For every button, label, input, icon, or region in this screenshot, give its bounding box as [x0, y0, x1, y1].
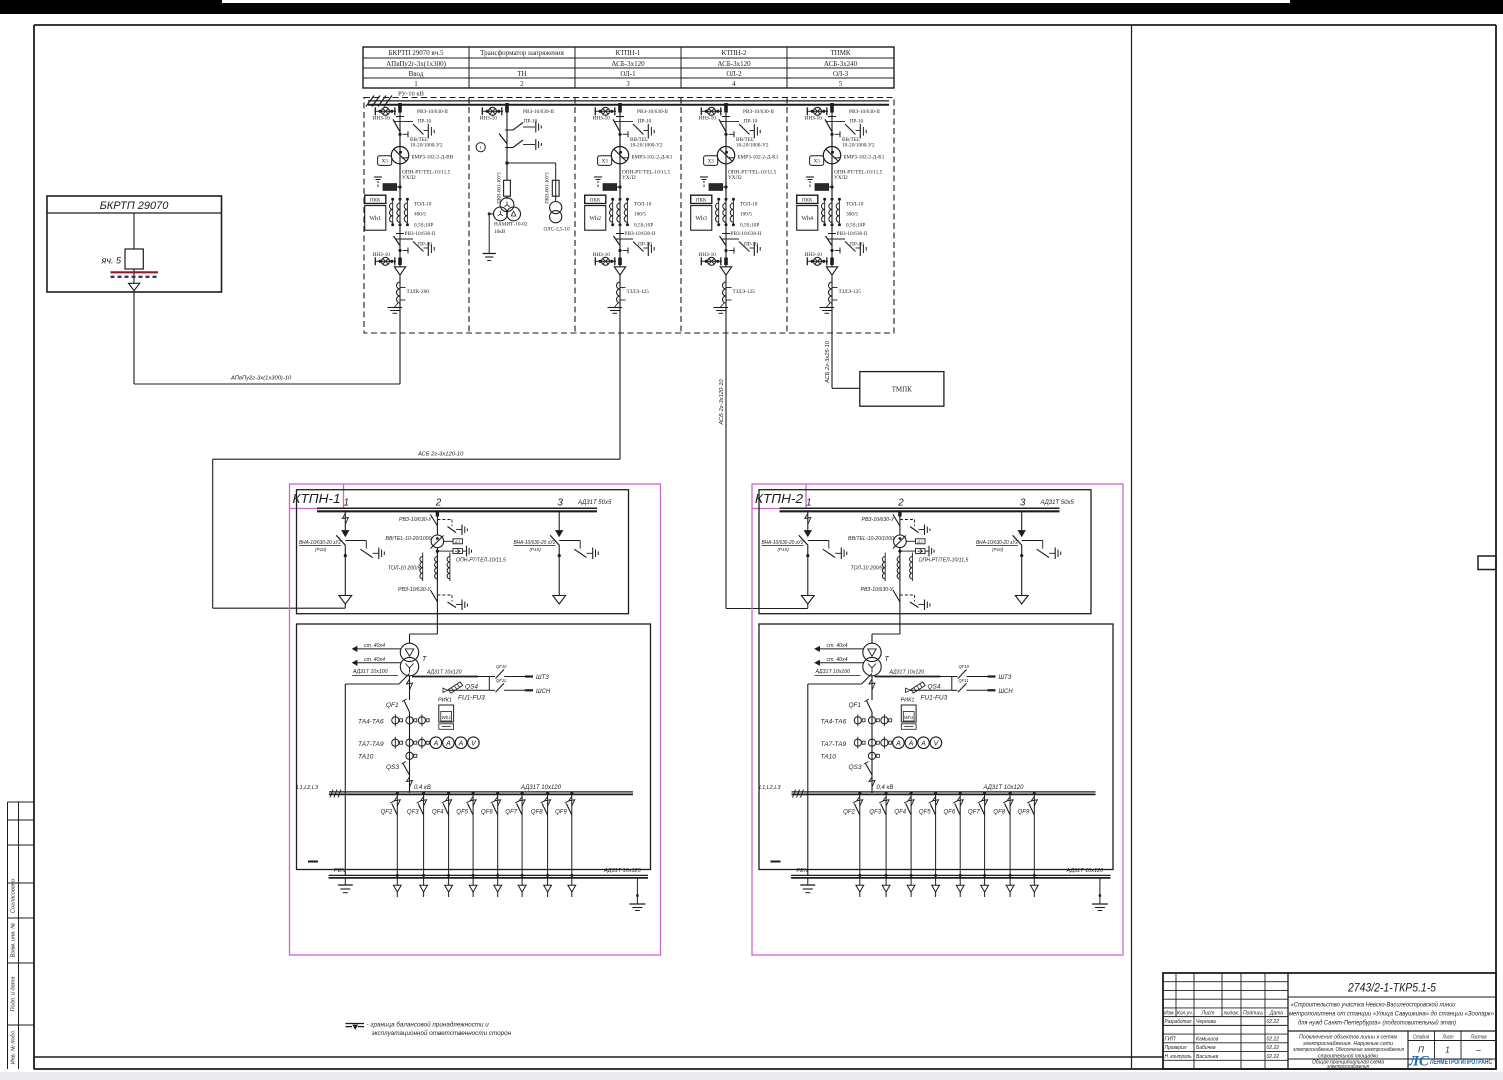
- svg-text:3: 3: [1020, 498, 1026, 509]
- svg-text:QF10: QF10: [496, 664, 507, 669]
- svg-text:ПР-10: ПР-10: [418, 119, 432, 125]
- svg-text:QS3: QS3: [849, 764, 862, 771]
- svg-text:Бабичев: Бабичев: [1196, 1045, 1216, 1051]
- svg-text:ГИП: ГИП: [1165, 1037, 1176, 1043]
- svg-text:ПР-10: ПР-10: [638, 119, 652, 125]
- svg-text:ТЗЛК-200: ТЗЛК-200: [407, 289, 430, 295]
- svg-text:Лист: Лист: [1200, 1010, 1214, 1016]
- svg-text:QF7: QF7: [968, 809, 980, 815]
- svg-text:Листов: Листов: [1470, 1034, 1487, 1040]
- svg-text:БКРТП 29070 яч.5: БКРТП 29070 яч.5: [389, 49, 444, 57]
- svg-text:Х3: Х3: [602, 160, 609, 165]
- svg-text:V: V: [934, 740, 940, 747]
- svg-text:КТПН-1: КТПН-1: [293, 491, 341, 506]
- svg-text:АСБ-3х240: АСБ-3х240: [824, 60, 858, 68]
- svg-text:ОЛ-3: ОЛ-3: [833, 70, 849, 78]
- svg-text:ПКК: ПКК: [370, 198, 381, 203]
- svg-text:ИНЗ-10: ИНЗ-10: [373, 252, 391, 258]
- svg-text:ПР-10: ПР-10: [744, 119, 758, 125]
- svg-text:2: 2: [520, 80, 524, 88]
- svg-text:QF11: QF11: [959, 678, 969, 683]
- svg-text:АПвПу2г-3х(1х300)-10: АПвПу2г-3х(1х300)-10: [230, 376, 292, 382]
- svg-text:ВНА-10/630-20 зУ2: ВНА-10/630-20 зУ2: [762, 540, 804, 546]
- svg-text:РВЗ-10/630-II: РВЗ-10/630-II: [849, 109, 880, 115]
- svg-text:ПР-10: ПР-10: [744, 242, 758, 248]
- svg-text:А: А: [458, 740, 464, 747]
- svg-text:РВЗ-10/630-II: РВЗ-10/630-II: [405, 231, 436, 237]
- svg-text:Подп. и дата: Подп. и дата: [11, 976, 17, 1011]
- svg-text:ВНА-10/630-20 зУ2: ВНА-10/630-20 зУ2: [514, 540, 556, 546]
- svg-text:АСБ 2г-3х120-10: АСБ 2г-3х120-10: [719, 379, 725, 426]
- svg-text:Взам. инв. №: Взам. инв. №: [11, 923, 17, 958]
- svg-text:электроснабжения. Обеспечение: электроснабжения. Обеспечение электросна…: [1293, 1047, 1404, 1053]
- svg-text:10кВ: 10кВ: [494, 229, 506, 235]
- svg-text:FU1-FU3: FU1-FU3: [458, 695, 485, 702]
- svg-text:ВНА-10/630-20 зУ2: ВНА-10/630-20 зУ2: [299, 540, 341, 546]
- svg-text:V: V: [471, 740, 477, 747]
- svg-text:QF8: QF8: [531, 809, 543, 815]
- svg-text:ТА7-ТА9: ТА7-ТА9: [358, 741, 384, 748]
- svg-text:УХЛ2: УХЛ2: [402, 175, 416, 181]
- svg-text:Wh4: Wh4: [801, 216, 813, 222]
- svg-text:QF8: QF8: [993, 809, 1005, 815]
- svg-text:АПвПу2г-3х(1х300): АПвПу2г-3х(1х300): [386, 60, 447, 68]
- svg-text:ТА4-ТА6: ТА4-ТА6: [821, 719, 847, 726]
- svg-text:1: 1: [414, 80, 418, 88]
- svg-text:ОПН-РТ/ТЕЛ-10/11,5: ОПН-РТ/ТЕЛ-10/11,5: [919, 558, 969, 564]
- svg-text:Инв. № подл.: Инв. № подл.: [11, 1030, 17, 1065]
- svg-text:АД31Т 10х120: АД31Т 10х120: [520, 785, 562, 791]
- svg-text:РИК1: РИК1: [901, 698, 915, 704]
- svg-text:ТОЛ-10 200/5: ТОЛ-10 200/5: [388, 566, 421, 572]
- svg-text:яч. 5: яч. 5: [101, 256, 122, 266]
- svg-text:ШТЗ: ШТЗ: [999, 675, 1012, 681]
- svg-text:QF2: QF2: [843, 809, 855, 815]
- svg-text:ст. 40х4: ст. 40х4: [364, 643, 385, 649]
- svg-text:ИНЗ-10: ИНЗ-10: [593, 116, 611, 122]
- svg-text:ПКК: ПКК: [590, 198, 601, 203]
- svg-text:ИНЗ-10: ИНЗ-10: [373, 116, 391, 122]
- svg-text:АД31Т 10х120: АД31Т 10х120: [426, 670, 462, 676]
- svg-text:ВВ/ТЕL-10-20/1000: ВВ/ТЕL-10-20/1000: [386, 536, 432, 542]
- svg-text:РВЗ-10/630-У: РВЗ-10/630-У: [398, 587, 431, 593]
- svg-text:ТМПК: ТМПК: [892, 386, 912, 394]
- svg-text:ОПН-РТ/ТЕЛ-10/11,5: ОПН-РТ/ТЕЛ-10/11,5: [456, 558, 506, 564]
- svg-text:5: 5: [839, 80, 843, 88]
- svg-text:АСБ 2г-3х120-10: АСБ 2г-3х120-10: [417, 452, 464, 458]
- svg-text:QF4: QF4: [894, 809, 906, 815]
- svg-text:ТОЛ-10 200/5: ТОЛ-10 200/5: [851, 566, 884, 572]
- svg-text:РИК1: РИК1: [438, 698, 452, 704]
- svg-text:ПКК: ПКК: [696, 198, 707, 203]
- svg-text:ИНЗ-10: ИНЗ-10: [480, 116, 498, 122]
- svg-text:для нужд Санкт-Петербурга» (по: для нужд Санкт-Петербурга» (подготовител…: [1298, 1019, 1456, 1027]
- svg-text:УХЛ2: УХЛ2: [622, 175, 636, 181]
- svg-text:электроснабжения. Наружные сет: электроснабжения. Наружные сети: [1303, 1041, 1393, 1047]
- svg-text:L1,L2,L3: L1,L2,L3: [759, 785, 781, 791]
- svg-text:РВЗ-10/630-II: РВЗ-10/630-II: [731, 231, 762, 237]
- svg-text:QF9: QF9: [1018, 809, 1030, 815]
- svg-text:Подпись: Подпись: [1243, 1010, 1263, 1016]
- svg-text:ИНЗ-10: ИНЗ-10: [593, 252, 611, 258]
- svg-text:QF1: QF1: [386, 702, 399, 709]
- svg-text:Wh2: Wh2: [589, 216, 601, 222]
- svg-text:РВЗ-10/630-II: РВЗ-10/630-II: [637, 109, 668, 115]
- svg-text:БМРЗ-102-2-Д-К1: БМРЗ-102-2-Д-К1: [844, 155, 885, 161]
- svg-text:УХЛ2: УХЛ2: [834, 175, 848, 181]
- svg-text:ЛС: ЛС: [1408, 1054, 1429, 1070]
- svg-text:АД31Т 10х120: АД31Т 10х120: [603, 868, 642, 874]
- svg-text:ПР-10: ПР-10: [418, 242, 432, 248]
- svg-text:А: А: [433, 740, 439, 747]
- svg-text:АД31Т 10х100: АД31Т 10х100: [815, 669, 851, 675]
- svg-text:ТЗЛЭ-125: ТЗЛЭ-125: [839, 289, 862, 295]
- svg-text:ТА4-ТА6: ТА4-ТА6: [358, 719, 384, 726]
- svg-text:НАМИТ-10-02: НАМИТ-10-02: [494, 222, 528, 228]
- svg-text:ПР-10: ПР-10: [638, 242, 652, 248]
- svg-text:ПКК: ПКК: [802, 198, 813, 203]
- svg-text:БКРТП 29070: БКРТП 29070: [100, 200, 170, 212]
- svg-text:ВВ/ТЕL-10-20/1000: ВВ/ТЕL-10-20/1000: [848, 536, 894, 542]
- svg-text:РВЗ-10/630-У: РВЗ-10/630-У: [862, 517, 895, 523]
- svg-text:Кол.уч.: Кол.уч.: [1177, 1010, 1193, 1016]
- svg-text:А: А: [445, 740, 451, 747]
- svg-text:РВЗ-10/630-II: РВЗ-10/630-II: [743, 109, 774, 115]
- svg-text:QF7: QF7: [505, 809, 517, 815]
- svg-text:ПР-10: ПР-10: [850, 242, 864, 248]
- svg-text:4: 4: [732, 80, 736, 88]
- svg-text:QF3: QF3: [869, 809, 881, 815]
- svg-text:L1,L2,L3: L1,L2,L3: [297, 785, 319, 791]
- svg-text:Т: Т: [885, 656, 890, 663]
- svg-text:QF3: QF3: [407, 809, 419, 815]
- svg-text:Д-1: Д-1: [916, 540, 923, 544]
- svg-text:10-20/1000-У2: 10-20/1000-У2: [842, 143, 875, 149]
- svg-text:QF10: QF10: [959, 664, 970, 669]
- svg-text:РУ-10 кВ: РУ-10 кВ: [398, 91, 425, 98]
- svg-text:УХЛ2: УХЛ2: [728, 175, 742, 181]
- svg-text:ШТЗ: ШТЗ: [536, 675, 549, 681]
- svg-text:Трансформатор напряжения: Трансформатор напряжения: [480, 49, 565, 57]
- svg-text:ТОЛ-10: ТОЛ-10: [634, 202, 652, 208]
- svg-text:PEN: PEN: [334, 868, 345, 874]
- svg-text:ИНЗ-10: ИНЗ-10: [699, 252, 717, 258]
- svg-text:ИНЗ-10: ИНЗ-10: [805, 116, 823, 122]
- svg-text:КТПН-2: КТПН-2: [755, 491, 804, 506]
- svg-text:400/5: 400/5: [414, 212, 426, 218]
- svg-text:(Р10): (Р10): [315, 547, 327, 552]
- svg-text:FU1-FU3: FU1-FU3: [921, 695, 948, 702]
- svg-text:2: 2: [897, 498, 904, 509]
- svg-text:Дата: Дата: [1269, 1010, 1283, 1016]
- svg-text:ИНЗ-10: ИНЗ-10: [805, 252, 823, 258]
- svg-text:РВЗ-10/630-II: РВЗ-10/630-II: [625, 231, 656, 237]
- svg-text:300/5: 300/5: [846, 212, 858, 218]
- svg-text:ТЗЛЭ-125: ТЗЛЭ-125: [627, 289, 650, 295]
- svg-text:ОЛ-2: ОЛ-2: [726, 70, 742, 78]
- svg-text:Wh3: Wh3: [695, 216, 707, 222]
- svg-text:- граница балансовой принадлеж: - граница балансовой принадлежности и: [367, 1021, 490, 1029]
- svg-text:0,4 кВ: 0,4 кВ: [414, 785, 431, 791]
- svg-text:АСБ-3х120: АСБ-3х120: [717, 60, 751, 68]
- svg-text:Стадия: Стадия: [1413, 1034, 1429, 1040]
- svg-text:Согласовано: Согласовано: [11, 879, 17, 913]
- svg-text:ТН: ТН: [517, 70, 526, 78]
- svg-text:БМРЗ-102-2-Д-К1: БМРЗ-102-2-Д-К1: [738, 155, 779, 161]
- svg-text:АД31Т 10х120: АД31Т 10х120: [889, 670, 925, 676]
- svg-text:РВЗ-10/630-II: РВЗ-10/630-II: [417, 109, 448, 115]
- svg-text:QF1: QF1: [849, 702, 862, 709]
- svg-text:ТОЛ-10: ТОЛ-10: [414, 202, 432, 208]
- svg-text:–: –: [1475, 1046, 1481, 1055]
- svg-text:Д-1: Д-1: [454, 540, 461, 544]
- svg-text:А: А: [895, 740, 901, 747]
- svg-text:0,4 кВ: 0,4 кВ: [877, 785, 894, 791]
- svg-text:АД31Т 50х5: АД31Т 50х5: [577, 500, 612, 506]
- svg-text:АСБ-3х120: АСБ-3х120: [611, 60, 645, 68]
- svg-text:ТА10: ТА10: [821, 754, 837, 761]
- svg-text:ИНЗ-10: ИНЗ-10: [699, 116, 717, 122]
- svg-text:10-20/1000-У2: 10-20/1000-У2: [410, 143, 443, 149]
- svg-text:ПР-10: ПР-10: [850, 119, 864, 125]
- svg-text:РВЗ-10/630-У: РВЗ-10/630-У: [861, 587, 894, 593]
- svg-text:ВНА-10/630-20 зУ2: ВНА-10/630-20 зУ2: [976, 540, 1018, 546]
- svg-text:электроснабжения: электроснабжения: [1327, 1064, 1369, 1070]
- svg-text:Разработал: Разработал: [1165, 1019, 1192, 1025]
- svg-text:0,5S;10Р: 0,5S;10Р: [740, 223, 759, 229]
- svg-text:100/5: 100/5: [740, 212, 752, 218]
- svg-text:Лист: Лист: [1442, 1034, 1454, 1040]
- svg-text:КТПН-1: КТПН-1: [616, 49, 641, 57]
- svg-text:АД31Т 10х120: АД31Т 10х120: [983, 785, 1025, 791]
- svg-text:ТОЛ-10: ТОЛ-10: [740, 202, 758, 208]
- svg-text:QF4: QF4: [432, 809, 444, 815]
- svg-text:100/5: 100/5: [634, 212, 646, 218]
- svg-text:2: 2: [435, 498, 442, 509]
- svg-text:АД31Т 50х5: АД31Т 50х5: [1040, 500, 1075, 506]
- svg-text:10-20/1000-У2: 10-20/1000-У2: [736, 143, 769, 149]
- svg-text:1: 1: [1445, 1046, 1449, 1055]
- svg-text:(Р10): (Р10): [530, 547, 542, 552]
- svg-text:(Р10): (Р10): [778, 547, 790, 552]
- svg-text:ПКН-001-10У3: ПКН-001-10У3: [546, 172, 551, 204]
- svg-text:БМРЗ-102-2-Д-ВВ: БМРЗ-102-2-Д-ВВ: [412, 155, 454, 161]
- svg-text:Х3: Х3: [382, 160, 389, 165]
- svg-text:2743/2-1-ТКР5.1-5: 2743/2-1-ТКР5.1-5: [1347, 983, 1436, 995]
- svg-text:Подключение объектов линии к с: Подключение объектов линии к сетям: [1299, 1035, 1397, 1041]
- svg-text:метрополитена от станции «Улиц: метрополитена от станции «Улица Савушкин…: [1289, 1010, 1494, 1018]
- svg-text:АСБ 2г-3х25-10: АСБ 2г-3х25-10: [825, 340, 831, 384]
- svg-text:QS4: QS4: [465, 684, 478, 691]
- svg-text:А: А: [908, 740, 914, 747]
- svg-text:ТА10: ТА10: [358, 754, 374, 761]
- svg-text:02.22: 02.22: [1267, 1045, 1280, 1051]
- svg-text:(Р10): (Р10): [992, 547, 1004, 552]
- svg-text:QS4: QS4: [928, 684, 941, 691]
- svg-text:3: 3: [557, 498, 563, 509]
- svg-text:ШСН: ШСН: [999, 689, 1014, 695]
- svg-text:Wh1: Wh1: [904, 715, 914, 720]
- svg-text:РВЗ-10/630-II: РВЗ-10/630-II: [837, 231, 868, 237]
- svg-text:Изм.: Изм.: [1164, 1010, 1175, 1016]
- svg-text:Камышов: Камышов: [1196, 1037, 1219, 1043]
- svg-text:Васильев: Васильев: [1196, 1054, 1219, 1060]
- svg-text:ТА7-ТА9: ТА7-ТА9: [821, 741, 847, 748]
- svg-text:№док.: №док.: [1224, 1010, 1240, 1016]
- svg-text:ТПМК: ТПМК: [830, 49, 851, 57]
- svg-text:Wh1: Wh1: [441, 715, 451, 720]
- svg-text:02.22: 02.22: [1267, 1019, 1280, 1025]
- svg-text:0,5S;10Р: 0,5S;10Р: [414, 223, 433, 229]
- svg-text:1: 1: [344, 498, 350, 509]
- svg-text:Ввод: Ввод: [409, 70, 424, 78]
- svg-text:Проверил: Проверил: [1165, 1045, 1187, 1051]
- svg-text:1: 1: [806, 498, 812, 509]
- svg-text:ТЗЛЭ-125: ТЗЛЭ-125: [733, 289, 756, 295]
- svg-text:QF6: QF6: [944, 809, 956, 815]
- svg-text:QF9: QF9: [555, 809, 567, 815]
- svg-text:БМРЗ-102-2-Д-К1: БМРЗ-102-2-Д-К1: [632, 155, 673, 161]
- svg-text:ст. 40х4: ст. 40х4: [364, 657, 385, 663]
- svg-text:QS3: QS3: [386, 764, 399, 771]
- svg-text:строительной площадки: строительной площадки: [1318, 1052, 1378, 1059]
- svg-text:PEN: PEN: [797, 868, 808, 874]
- svg-text:ст. 40х4: ст. 40х4: [827, 657, 848, 663]
- svg-text:АД31Т 10х120: АД31Т 10х120: [1066, 868, 1105, 874]
- svg-text:0,5S;10Р: 0,5S;10Р: [846, 223, 865, 229]
- svg-text:ПКН-001-10У3: ПКН-001-10У3: [498, 172, 503, 204]
- svg-text:ОЛС-2,5-10: ОЛС-2,5-10: [544, 227, 570, 233]
- svg-text:эксплуатационной ответственнос: эксплуатационной ответственности сторон: [372, 1029, 512, 1037]
- svg-text:Wh1: Wh1: [369, 216, 381, 222]
- svg-text:QF5: QF5: [919, 809, 931, 815]
- svg-text:1: 1: [480, 145, 482, 150]
- svg-text:02.22: 02.22: [1267, 1037, 1280, 1043]
- svg-text:ЛЕНМЕТРОГИПРОТРАНС: ЛЕНМЕТРОГИПРОТРАНС: [1430, 1057, 1492, 1066]
- svg-text:«Строительство участка Невско-: «Строительство участка Невско-Василеостр…: [1291, 1001, 1456, 1009]
- svg-text:02.22: 02.22: [1267, 1054, 1280, 1060]
- svg-text:РВЗ-10/630-У: РВЗ-10/630-У: [399, 517, 432, 523]
- svg-text:0,5S;10Р: 0,5S;10Р: [634, 223, 653, 229]
- svg-text:КТПН-2: КТПН-2: [722, 49, 747, 57]
- svg-text:ТОЛ-10: ТОЛ-10: [846, 202, 864, 208]
- svg-text:ШСН: ШСН: [536, 689, 551, 695]
- svg-text:ОЛ-1: ОЛ-1: [620, 70, 636, 78]
- svg-text:Чернова: Чернова: [1196, 1019, 1216, 1025]
- svg-text:РВЗ-10/630-II: РВЗ-10/630-II: [523, 109, 554, 115]
- svg-text:10-20/1000-У2: 10-20/1000-У2: [630, 143, 663, 149]
- svg-text:ст. 40х4: ст. 40х4: [827, 643, 848, 649]
- svg-text:QF5: QF5: [456, 809, 468, 815]
- svg-text:3: 3: [626, 80, 630, 88]
- svg-text:QF2: QF2: [381, 809, 393, 815]
- svg-text:Т: Т: [422, 656, 427, 663]
- svg-text:Н. контроль: Н. контроль: [1165, 1054, 1192, 1060]
- svg-text:АД31Т 10х100: АД31Т 10х100: [352, 669, 388, 675]
- svg-text:Х3: Х3: [814, 160, 821, 165]
- svg-text:А: А: [920, 740, 926, 747]
- svg-text:QF6: QF6: [481, 809, 493, 815]
- svg-text:QF11: QF11: [496, 678, 506, 683]
- svg-text:Х3: Х3: [708, 160, 715, 165]
